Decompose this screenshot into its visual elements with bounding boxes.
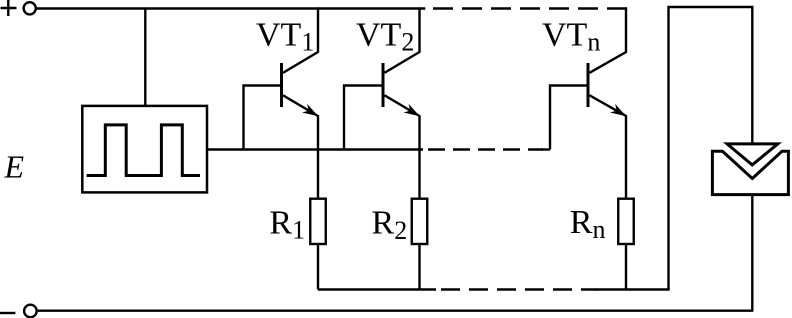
svg-text:E: E <box>4 149 25 185</box>
